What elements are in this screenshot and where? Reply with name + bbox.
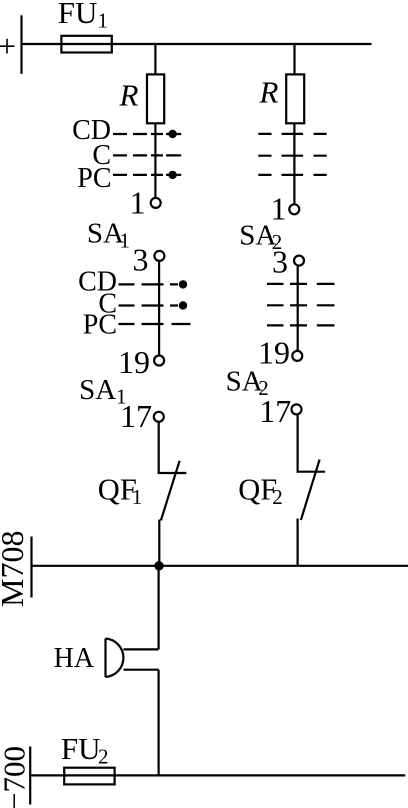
terminal 3 (right) <box>294 256 304 266</box>
svg-text:SA: SA <box>87 218 124 250</box>
contact row 2 (SA2 block) <box>267 304 335 306</box>
svg-text:M708: M708 <box>0 531 30 607</box>
contact row CD (SA1 block) <box>119 283 179 285</box>
svg-text:FU: FU <box>58 0 98 30</box>
contact row CD (upper left block) <box>113 133 181 135</box>
svg-text:SA: SA <box>226 366 263 398</box>
svg-text:1: 1 <box>130 185 146 221</box>
svg-text:+: + <box>0 28 16 64</box>
svg-text:19: 19 <box>118 344 150 380</box>
wire: top wire to right resistor <box>293 44 295 75</box>
resistor R (right) <box>286 74 304 123</box>
contact row PC (SA1 block) <box>119 323 191 325</box>
svg-text:3: 3 <box>133 242 149 278</box>
horn HA bottom lead <box>124 669 159 671</box>
dot on PC row <box>168 171 176 179</box>
horn HA top lead <box>124 648 159 650</box>
svg-text:PC: PC <box>77 163 111 194</box>
bus M708 <box>32 565 408 567</box>
wire: bus M708 down to horn <box>158 566 160 649</box>
wire: SA2 contact column <box>297 266 299 350</box>
dot on CD row (SA1) <box>179 280 187 288</box>
fuse FU1 <box>61 36 111 53</box>
QF2 switch blade <box>301 460 320 520</box>
positive terminal bar <box>20 15 22 74</box>
wire: horn to bus -700 <box>158 670 160 776</box>
QF2 fixed contact tick <box>298 471 326 473</box>
M708 terminal bar <box>30 537 32 598</box>
svg-text:HA: HA <box>54 643 95 674</box>
contact row 1 (SA2 block) <box>267 283 335 285</box>
svg-text:−700: −700 <box>0 746 31 808</box>
svg-text:1: 1 <box>98 9 109 33</box>
svg-text:R: R <box>119 77 139 112</box>
terminal 17 (left) <box>154 412 164 422</box>
QF1 fixed contact tick <box>159 472 187 474</box>
svg-text:17: 17 <box>120 398 152 434</box>
svg-text:1: 1 <box>132 485 143 509</box>
wire: SA1 contact column <box>158 262 160 356</box>
contact row 3 (SA2 block) <box>267 324 335 326</box>
svg-text:2: 2 <box>272 485 283 509</box>
terminal 1 (left) <box>151 198 161 208</box>
terminal 1 (right) <box>289 204 299 214</box>
wire: terminal 17 to QF1 <box>158 423 160 475</box>
contact row 2 (upper right block) <box>258 155 326 157</box>
wire: left resistor to terminal 1 <box>154 123 156 197</box>
terminal 19 (right) <box>292 351 302 361</box>
svg-text:SA: SA <box>79 374 116 406</box>
svg-text:2: 2 <box>98 744 109 768</box>
svg-text:19: 19 <box>258 334 290 370</box>
svg-text:1: 1 <box>120 228 131 252</box>
dot on C row (SA1) <box>179 301 187 309</box>
svg-text:FU: FU <box>61 731 101 766</box>
wire: QF2 to bus M708 <box>297 519 299 567</box>
top supply wire <box>22 43 372 45</box>
contact row C (upper left block) <box>113 154 181 156</box>
wire: top wire to left resistor <box>154 44 156 75</box>
contact row 1 (upper right block) <box>258 133 326 135</box>
terminal 3 (left) <box>154 251 164 261</box>
horn HA <box>106 639 124 678</box>
wire: right resistor to terminal 1 <box>293 123 295 203</box>
terminal 19 (left) <box>154 356 164 366</box>
resistor R (left) <box>147 74 164 123</box>
svg-text:17: 17 <box>259 393 291 429</box>
-700 terminal bar <box>29 747 31 805</box>
QF1 switch blade <box>161 461 180 521</box>
bus -700 <box>30 774 405 776</box>
svg-text:SA: SA <box>239 219 276 251</box>
dot on CD row <box>168 130 176 138</box>
wire: terminal 17 to QF2 <box>297 415 299 473</box>
wire: QF1 to bus M708 <box>158 520 160 567</box>
svg-text:3: 3 <box>272 243 288 279</box>
contact row C (SA1 block) <box>119 304 179 306</box>
terminal 17 (right) <box>292 404 302 414</box>
fuse FU2 <box>64 768 114 785</box>
svg-text:R: R <box>259 75 279 110</box>
contact row PC (upper left block) <box>113 174 181 176</box>
contact row 3 (upper right block) <box>258 174 326 176</box>
junction dot on bus M708 <box>154 561 163 570</box>
svg-text:PC: PC <box>83 310 117 341</box>
